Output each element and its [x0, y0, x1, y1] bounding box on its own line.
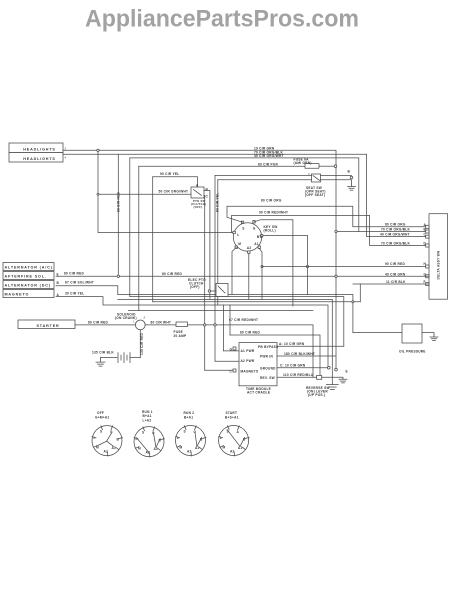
wire 11 CIR BLK alt dc to pin F — [56, 286, 118, 295]
svg-text:A: A — [57, 293, 60, 297]
svg-text:(AMI GRN): (AMI GRN) — [294, 161, 312, 165]
elec pto clutch K1 — [216, 284, 228, 297]
wire module right ground — [277, 367, 328, 369]
wire key B right — [263, 236, 308, 295]
wire headlight1 drop — [98, 152, 234, 233]
svg-text:30 CIR YEL: 30 CIR YEL — [65, 291, 84, 295]
module U1 — [239, 343, 277, 386]
wire module A1 — [223, 305, 239, 351]
svg-text:G+M+A1: G+M+A1 — [95, 416, 109, 420]
svg-text:A: A — [144, 317, 146, 320]
wire bus5 — [153, 301, 361, 303]
svg-text:3: 3 — [65, 147, 67, 151]
svg-text:G: G — [253, 227, 256, 231]
svg-text:B: B — [348, 170, 351, 174]
svg-text:S: S — [184, 429, 186, 433]
node junction at 98,150 — [97, 149, 99, 151]
svg-text:C: C — [424, 233, 427, 237]
svg-text:E: E — [346, 370, 348, 374]
wire 60 CIR PUR drop — [138, 166, 140, 310]
wire headlight1 to right bus — [63, 150, 336, 369]
svg-text:80 CIR RED: 80 CIR RED — [162, 272, 182, 276]
svg-text:A: A — [237, 430, 240, 434]
afterfire solenoid box — [3, 272, 54, 280]
svg-text:MAGNETO: MAGNETO — [241, 369, 259, 373]
svg-text:70 CIR ORG/BLK: 70 CIR ORG/BLK — [381, 241, 410, 245]
rotary legend OFF — [92, 411, 123, 456]
svg-text:MAGNETO: MAGNETO — [5, 293, 30, 297]
svg-text:C: C — [206, 195, 209, 199]
svg-text:180 CIR BLK/WHT: 180 CIR BLK/WHT — [284, 352, 315, 356]
wire module rev sw — [277, 376, 317, 378]
wire 80 CIR RED lower — [230, 335, 320, 376]
svg-text:B+A1: B+A1 — [184, 416, 193, 420]
svg-text:A: A — [424, 223, 427, 227]
svg-text:OFF: OFF — [97, 411, 104, 415]
pto switch S2 — [191, 187, 204, 198]
wire pto drops — [203, 196, 206, 371]
svg-text:90 CIR YEL: 90 CIR YEL — [160, 172, 179, 176]
wire key A1 drop — [259, 249, 262, 300]
svg-text:(UP POS.): (UP POS.) — [308, 393, 325, 397]
wire bus4 — [130, 297, 344, 347]
svg-text:A1: A1 — [254, 242, 259, 246]
svg-text:B: B — [57, 281, 60, 285]
wire 90 CIR YEL — [153, 177, 198, 187]
svg-text:90 CIR RED/WHT: 90 CIR RED/WHT — [259, 211, 288, 215]
oil pressure switch S4 — [402, 324, 422, 343]
wire bus6 — [129, 310, 314, 312]
wire 50 CIR ORG/WHT — [98, 193, 191, 195]
svg-text:110 CIR RED/BLU: 110 CIR RED/BLU — [283, 373, 314, 377]
svg-text:1: 1 — [133, 321, 135, 324]
wire key M drop — [232, 248, 236, 295]
svg-text:OIL PRESSURE: OIL PRESSURE — [399, 349, 426, 353]
svg-text:40 CIR GRN: 40 CIR GRN — [385, 272, 406, 276]
ground G3 oil — [430, 335, 438, 341]
wire headlight2 to right — [63, 154, 429, 236]
svg-text:4: 4 — [65, 156, 67, 160]
ground G5 big — [326, 385, 338, 390]
svg-text:70 CIR ORG/BLK: 70 CIR ORG/BLK — [381, 227, 410, 231]
alternator DC box — [3, 281, 54, 289]
headlight 1 box — [9, 143, 63, 153]
wire module right pwr — [277, 355, 336, 357]
wire 30 CIR YEL magneto — [56, 297, 328, 368]
svg-text:B: B — [257, 235, 260, 239]
starter box — [18, 320, 75, 329]
svg-text:ALTERNATOR (A/C): ALTERNATOR (A/C) — [5, 266, 53, 270]
svg-text:(OFF): (OFF) — [190, 285, 200, 289]
svg-text:60 CIR WHT: 60 CIR WHT — [151, 320, 172, 324]
svg-text:C: 10 CIR GRN: C: 10 CIR GRN — [280, 363, 306, 367]
svg-text:20 AMP: 20 AMP — [174, 334, 188, 338]
svg-text:RUN 1: RUN 1 — [142, 410, 153, 414]
wire fuse right — [188, 325, 314, 377]
svg-text:GROUND: GROUND — [260, 366, 276, 370]
wire 80 CIR RED vertical — [117, 154, 119, 276]
wire 40 CIR GRN afterfire to pin G — [56, 275, 429, 277]
svg-text:A2 PWR: A2 PWR — [241, 359, 255, 363]
svg-text:67 CIR SOL/WHT: 67 CIR SOL/WHT — [65, 281, 94, 285]
svg-text:(OFF): (OFF) — [194, 205, 203, 209]
alternator AC box — [3, 263, 54, 271]
seat switch S3 — [312, 174, 321, 182]
svg-text:STARTER: STARTER — [36, 324, 59, 328]
magneto box — [3, 290, 54, 298]
rotary legend START — [219, 411, 250, 456]
wire module magneto pin — [205, 369, 233, 371]
svg-text:(ROLL): (ROLL) — [264, 229, 276, 233]
wire starter to solenoid — [75, 324, 135, 326]
svg-text:135 CIR BLK: 135 CIR BLK — [92, 350, 114, 354]
wire 40 CIR ORG/WHT — [130, 158, 359, 232]
svg-text:S: S — [100, 429, 102, 433]
svg-text:H: H — [424, 262, 427, 266]
svg-text:REV. SW: REV. SW — [260, 376, 275, 380]
ground G4 module — [339, 377, 347, 383]
svg-text:L: L — [237, 233, 239, 237]
svg-text:(ON CRANK): (ON CRANK) — [115, 316, 137, 320]
fuse F2 20A — [176, 322, 188, 327]
svg-text:S: S — [142, 430, 144, 434]
svg-text:PWR IN: PWR IN — [260, 355, 273, 359]
svg-text:B: B — [424, 228, 427, 232]
svg-text:A: A — [196, 183, 199, 187]
wire 60 CIR PUR — [139, 165, 305, 167]
svg-text:80 CIR RED: 80 CIR RED — [88, 320, 108, 324]
connector J1 — [429, 214, 448, 300]
wire bus3 — [118, 299, 332, 384]
svg-text:80 CIR ORG: 80 CIR ORG — [261, 198, 282, 202]
svg-text:80 CIR RED: 80 CIR RED — [117, 192, 121, 212]
rotary legend RUN1 — [134, 410, 165, 457]
svg-text:50 CIR ORG/WHT: 50 CIR ORG/WHT — [159, 190, 189, 194]
svg-text:90 CIR YEL: 90 CIR YEL — [216, 193, 220, 212]
svg-text:(OFF SEAT): (OFF SEAT) — [305, 193, 325, 197]
svg-text:80 CIR ORG: 80 CIR ORG — [385, 223, 406, 227]
svg-text:F: F — [424, 280, 426, 284]
svg-text:90 CIR RED: 90 CIR RED — [385, 262, 405, 266]
svg-text:80 CIR RED: 80 CIR RED — [240, 331, 260, 335]
svg-text:DELTA ASSY WH: DELTA ASSY WH — [437, 250, 441, 279]
fuse F1 6A — [305, 164, 319, 169]
svg-text:B: B — [206, 188, 209, 192]
svg-text:135 CIR RED: 135 CIR RED — [140, 332, 144, 355]
wire pin H — [262, 266, 429, 268]
svg-text:A: 10 CIR GRN: A: 10 CIR GRN — [279, 342, 305, 346]
svg-text:HEADLIGHTS: HEADLIGHTS — [23, 148, 55, 152]
solenoid K2 — [135, 320, 145, 330]
svg-text:40 CIR ORG/WHT: 40 CIR ORG/WHT — [380, 233, 410, 237]
svg-text:AppliancePartsPros.com: AppliancePartsPros.com — [85, 6, 359, 33]
svg-text:80 CIR RED: 80 CIR RED — [64, 272, 84, 276]
svg-text:HEADLIGHTS: HEADLIGHTS — [23, 157, 55, 161]
wire 90 CIR YEL drop — [152, 177, 154, 302]
svg-text:PB BYPASS: PB BYPASS — [258, 345, 278, 349]
svg-text:S: S — [242, 227, 244, 231]
svg-text:B+S+A1: B+S+A1 — [225, 416, 239, 420]
key switch SW1 — [233, 223, 261, 251]
wire 90 CIR RED/WHT — [232, 215, 429, 245]
svg-text:A2: A2 — [247, 246, 252, 250]
wire solenoid to fuse — [145, 324, 176, 326]
svg-text:RUN 2: RUN 2 — [184, 411, 195, 415]
svg-text:11 CIR BLK: 11 CIR BLK — [386, 280, 406, 284]
svg-text:40 CIR ORG/WHT: 40 CIR ORG/WHT — [254, 154, 284, 158]
wire key G up 80 CIR ORG — [227, 206, 429, 227]
svg-text:L+A2: L+A2 — [143, 419, 152, 423]
wire module A2 — [215, 360, 239, 362]
svg-text:ACT CRADLE: ACT CRADLE — [247, 391, 270, 395]
wire module right A — [277, 345, 344, 347]
ground G1 seat — [348, 184, 356, 190]
svg-text:A1 PWR: A1 PWR — [241, 349, 255, 353]
ground G2 battery — [96, 358, 105, 367]
svg-text:D: D — [424, 242, 427, 246]
svg-text:E: E — [57, 272, 59, 276]
headlight 2 box — [9, 153, 63, 163]
svg-text:M: M — [238, 242, 241, 246]
svg-text:AFTERFIRE SOL.: AFTERFIRE SOL. — [5, 275, 47, 279]
svg-text:B+A1: B+A1 — [143, 414, 152, 418]
svg-text:ALTERNATOR (DC): ALTERNATOR (DC) — [5, 284, 51, 288]
wire bus2 — [118, 295, 402, 333]
svg-text:60 CIR PUR: 60 CIR PUR — [258, 162, 278, 166]
svg-text:67 CIR RED/WHT: 67 CIR RED/WHT — [229, 318, 258, 322]
battery BT1 — [139, 330, 141, 358]
svg-text:START: START — [226, 411, 238, 415]
rotary legend RUN2 — [176, 411, 207, 456]
wire key A2 drop — [248, 254, 250, 300]
